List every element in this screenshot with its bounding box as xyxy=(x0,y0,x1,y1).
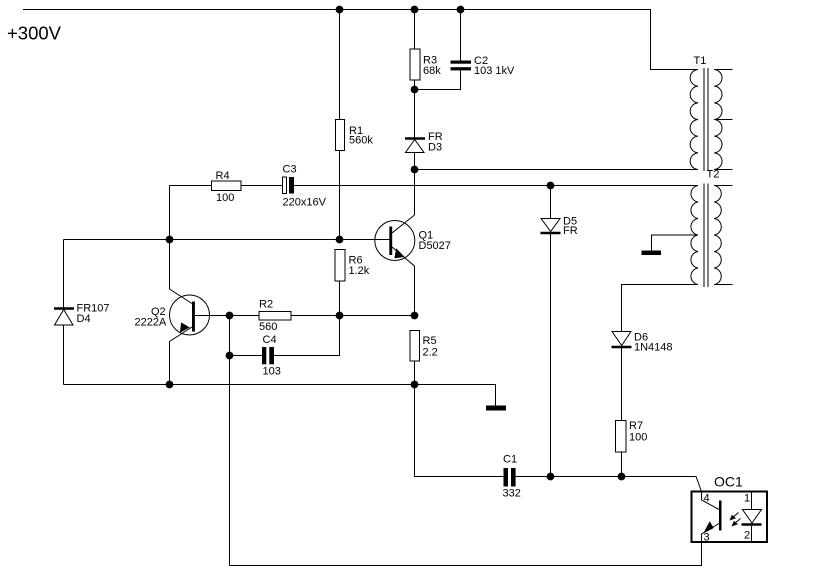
wire C4 right lead up to R2 node xyxy=(274,316,340,356)
junction base rail / Q2 collector xyxy=(166,236,173,243)
svg-text:R5: R5 xyxy=(423,335,437,347)
wire D5 bottom to C1 wire xyxy=(550,234,552,477)
svg-text:C1: C1 xyxy=(503,454,517,466)
transformer T1 secondary coil xyxy=(714,70,722,170)
wire T2 secondary top lead xyxy=(714,185,732,187)
junction C4 column xyxy=(226,352,233,359)
wire Q2 base to R2 xyxy=(195,315,259,317)
wire D5 column xyxy=(550,186,552,219)
resistor R5 xyxy=(410,331,438,362)
svg-text:D3: D3 xyxy=(428,142,442,154)
svg-text:FR: FR xyxy=(563,225,578,237)
wire R4 left lead xyxy=(170,185,212,187)
svg-text:2: 2 xyxy=(744,530,750,542)
wire C2 bottom to R3/D3 node xyxy=(415,70,461,89)
wire D4 bottom lead xyxy=(63,325,65,385)
wire C4 column down to bottom rail xyxy=(229,316,231,566)
junction top rail / R1 xyxy=(336,6,343,13)
transformer T2 primary coil xyxy=(691,186,698,285)
svg-text:+300V: +300V xyxy=(7,23,62,44)
resistor R2 xyxy=(259,299,291,334)
wire R7 bottom xyxy=(621,452,623,477)
svg-text:OC1: OC1 xyxy=(714,474,743,490)
svg-text:2.2: 2.2 xyxy=(423,347,438,359)
transistor Q2 xyxy=(135,240,210,385)
junction emitter rail / R5 xyxy=(411,312,418,319)
transformer T2 core xyxy=(704,184,708,288)
capacitor C4 xyxy=(262,334,281,378)
svg-text:2222A: 2222A xyxy=(135,317,167,329)
wire C4 left lead xyxy=(230,355,263,357)
capacitor C3 xyxy=(283,164,327,209)
wire R2 right to emitter rail xyxy=(291,315,415,317)
svg-text:100: 100 xyxy=(216,192,234,204)
junction ground rail / R5 xyxy=(411,381,418,388)
junction top rail / C2 xyxy=(457,6,464,13)
wire R3 bottom xyxy=(414,80,416,138)
wire T1 secondary mid tap xyxy=(714,119,732,121)
junction R3/C2/D3 node xyxy=(411,86,418,93)
svg-text:1N4148: 1N4148 xyxy=(634,342,673,354)
svg-text:1.2k: 1.2k xyxy=(349,265,370,277)
svg-text:560k: 560k xyxy=(349,135,373,147)
junction ground rail / Q2 emitter xyxy=(166,381,173,388)
junction D3 / T1 wire xyxy=(411,166,418,173)
wire D4 top lead xyxy=(63,240,65,309)
wire R1 bottom to base node xyxy=(339,151,341,240)
svg-text:332: 332 xyxy=(503,488,521,500)
svg-text:R7: R7 xyxy=(629,420,643,432)
OC1 phototransistor xyxy=(702,492,722,543)
wire C1 to OC1 pin4 xyxy=(516,477,702,492)
junction base rail / R1 R6 xyxy=(336,236,343,243)
wire T1 secondary top lead xyxy=(714,69,732,71)
capacitor C2 xyxy=(451,55,516,77)
junction top rail / R3 xyxy=(411,6,418,13)
svg-text:1: 1 xyxy=(744,493,750,505)
wire ground rail y385 xyxy=(64,385,496,406)
ground symbol T2 tap xyxy=(642,251,662,256)
transistor Q1 xyxy=(375,215,451,316)
wire T2 primary center tap to ground xyxy=(652,235,699,251)
wire +300V top rail xyxy=(23,10,698,70)
wire base-node up to R4 xyxy=(169,186,171,240)
wire T2 secondary-left bottom to D6 xyxy=(622,285,699,332)
wire C2 column top xyxy=(460,10,462,61)
wire C3 to T2 primary top xyxy=(294,185,698,187)
transformer T1 core xyxy=(704,68,708,171)
svg-text:C4: C4 xyxy=(263,334,277,346)
svg-text:T1: T1 xyxy=(694,55,707,67)
wire D3 node to T1 primary bottom xyxy=(415,169,698,171)
diode D3 xyxy=(405,131,443,154)
wire D6 to R7 xyxy=(621,348,623,421)
wire base rail y239 xyxy=(64,239,390,241)
diode D6 xyxy=(612,332,673,354)
wire R3 column top xyxy=(414,10,416,50)
transformer T1 primary coil xyxy=(690,70,698,170)
svg-text:C3: C3 xyxy=(283,164,297,176)
wire T1 secondary bottom lead xyxy=(714,169,732,171)
svg-text:D4: D4 xyxy=(77,313,91,325)
resistor R4 xyxy=(212,170,242,204)
transformer T2 secondary coil xyxy=(714,186,721,285)
svg-text:68k: 68k xyxy=(423,65,441,77)
resistor R6 xyxy=(335,250,370,282)
wire R1 column top xyxy=(339,10,341,120)
svg-text:100: 100 xyxy=(629,432,647,444)
svg-text:3: 3 xyxy=(704,532,710,544)
svg-text:T2: T2 xyxy=(707,169,720,181)
OC1 LED xyxy=(742,492,762,543)
wire D3 anode to collector node xyxy=(414,153,416,216)
ground symbol main xyxy=(486,406,506,411)
junction base/C4 column xyxy=(226,312,233,319)
svg-text:103: 103 xyxy=(263,366,281,378)
svg-text:103 1kV: 103 1kV xyxy=(474,65,515,77)
diode D4 FR107 xyxy=(54,303,110,326)
svg-text:D5027: D5027 xyxy=(419,240,451,252)
resistor R1 xyxy=(336,120,374,151)
capacitor C1 xyxy=(503,454,521,500)
junction C1 wire / R7 xyxy=(618,473,625,480)
OC1 light arrows xyxy=(730,513,741,527)
junction R2/R6 xyxy=(336,312,343,319)
optocoupler OC1 xyxy=(692,474,768,543)
resistor R7 xyxy=(616,420,648,452)
diode D5 xyxy=(541,216,578,238)
svg-text:R4: R4 xyxy=(216,170,230,182)
junction D5 top xyxy=(547,182,554,189)
wire R4 to C3 xyxy=(241,185,283,187)
svg-text:560: 560 xyxy=(259,321,277,333)
svg-text:220x16V: 220x16V xyxy=(283,197,327,209)
wire T2 secondary bottom lead xyxy=(714,284,732,286)
svg-text:R2: R2 xyxy=(259,299,273,311)
resistor R3 xyxy=(410,49,441,80)
wire R5 bottom xyxy=(414,361,416,385)
wire R6 bottom xyxy=(339,281,341,316)
wire OC1 pin3 to bottom rail xyxy=(230,542,702,566)
junction C1 wire / D5 xyxy=(547,473,554,480)
wire R5 node down to C1 xyxy=(415,385,504,477)
